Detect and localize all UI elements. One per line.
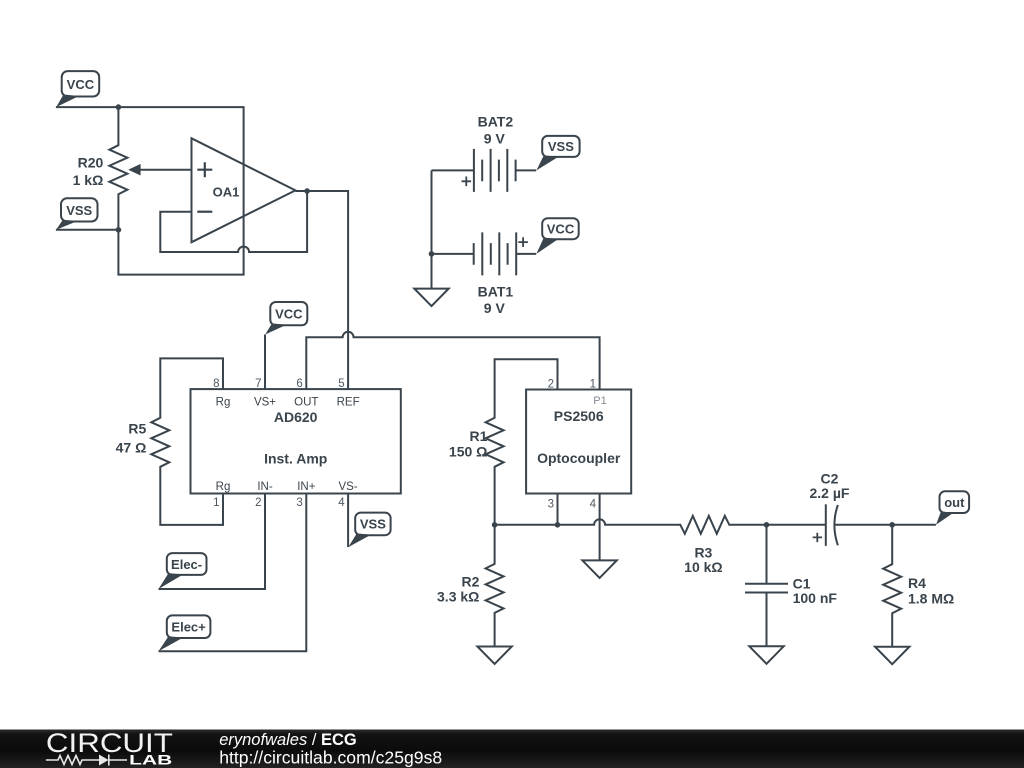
flag Elec+ bbox=[159, 615, 211, 651]
svg-text:9 V: 9 V bbox=[484, 300, 506, 316]
svg-text:R2: R2 bbox=[461, 573, 479, 589]
svg-text:Optocoupler: Optocoupler bbox=[537, 450, 621, 466]
node op-amp output bbox=[304, 188, 310, 194]
resistor R5 47 Ohm with loop pin8 to pin1 bbox=[116, 358, 223, 525]
svg-text:47 Ω: 47 Ω bbox=[116, 439, 147, 455]
svg-text:erynofwales / ECG: erynofwales / ECG bbox=[219, 731, 357, 749]
svg-text:9 V: 9 V bbox=[484, 130, 506, 146]
flag VSS at BAT2 bbox=[536, 136, 579, 171]
node R4 junction bbox=[889, 522, 895, 528]
svg-text:6: 6 bbox=[296, 378, 302, 390]
node VCC rail junction bbox=[116, 104, 122, 110]
node R1 bottom junction bbox=[492, 522, 498, 528]
svg-text:BAT2: BAT2 bbox=[478, 113, 514, 129]
svg-text:VS-: VS- bbox=[339, 481, 358, 493]
svg-text:PS2506: PS2506 bbox=[554, 408, 604, 424]
flag Elec- bbox=[159, 553, 207, 589]
svg-text:VCC: VCC bbox=[275, 306, 303, 321]
resistor R2 3.3 kOhm bbox=[437, 525, 504, 647]
svg-text:100 nF: 100 nF bbox=[793, 590, 838, 606]
node C1 junction bbox=[764, 522, 770, 528]
svg-text:Inst. Amp: Inst. Amp bbox=[264, 450, 327, 466]
flag VCC at pin 7 bbox=[265, 302, 307, 335]
svg-text:3: 3 bbox=[548, 499, 554, 511]
svg-text:4: 4 bbox=[338, 497, 345, 509]
svg-text:VCC: VCC bbox=[67, 77, 95, 92]
svg-text:1: 1 bbox=[590, 378, 596, 390]
flag out bbox=[936, 491, 969, 525]
wire AD620 OUT pin6 to PS2506 pin1 with hop bbox=[306, 332, 599, 390]
svg-text:AD620: AD620 bbox=[274, 409, 318, 425]
svg-text:Elec-: Elec- bbox=[171, 557, 202, 572]
svg-text:R1: R1 bbox=[469, 428, 487, 444]
node battery junction bbox=[429, 251, 435, 257]
svg-text:2: 2 bbox=[548, 378, 554, 390]
wire feedback from output to inverting input with hop bbox=[160, 191, 307, 252]
wire pin4 stub to ground bbox=[599, 494, 601, 561]
svg-text:BAT1: BAT1 bbox=[478, 284, 514, 300]
node pin3 junction bbox=[555, 522, 561, 528]
svg-text:C1: C1 bbox=[793, 575, 811, 591]
svg-text:VSS: VSS bbox=[548, 139, 574, 154]
svg-text:REF: REF bbox=[337, 397, 360, 409]
svg-text:out: out bbox=[944, 495, 965, 510]
svg-text:R4: R4 bbox=[908, 575, 926, 591]
wire pin4 VS- to VSS flag bbox=[347, 494, 349, 548]
svg-text:1: 1 bbox=[213, 497, 219, 509]
op-amp U2 AD620 Inst. Amp box bbox=[191, 378, 401, 509]
resistor R3 10 kOhm labels bbox=[684, 544, 722, 575]
wire bus right of C2 to out flag bbox=[835, 524, 936, 526]
flag VSS bbox=[56, 198, 97, 230]
op-amp OA1 bbox=[192, 138, 296, 242]
wire op-amp output to REF pin 5 bbox=[295, 191, 348, 389]
svg-text:5: 5 bbox=[338, 378, 344, 390]
flag VCC bbox=[56, 71, 99, 107]
svg-text:IN-: IN- bbox=[257, 481, 273, 493]
wire main bus with hop over pin4 and resistor R3 bbox=[495, 516, 826, 534]
svg-text:VS+: VS+ bbox=[254, 397, 276, 409]
battery BAT1 9 V bbox=[432, 232, 537, 316]
ground at C1 bbox=[749, 646, 783, 664]
svg-text:Rg: Rg bbox=[216, 397, 231, 409]
wire pin2 IN- to Elec- flag bbox=[159, 494, 266, 590]
svg-text:10 kΩ: 10 kΩ bbox=[684, 559, 722, 575]
wire battery common leg bbox=[431, 170, 433, 288]
svg-text:R5: R5 bbox=[128, 420, 146, 436]
node VSS junction bbox=[116, 227, 122, 233]
svg-text:Elec+: Elec+ bbox=[171, 620, 206, 635]
flag VCC at BAT1 bbox=[536, 218, 578, 254]
svg-text:http://circuitlab.com/c25g9s8: http://circuitlab.com/c25g9s8 bbox=[219, 747, 442, 767]
resistor R20 1 kOhm potentiometer bbox=[73, 107, 192, 230]
wire VCC top rail down to op-amp bottom and back to VSS node bbox=[56, 107, 244, 275]
wire pin3 IN+ to Elec+ flag bbox=[159, 494, 307, 652]
svg-text:R20: R20 bbox=[78, 154, 104, 170]
ground at pin4 bbox=[582, 560, 616, 578]
svg-text:7: 7 bbox=[255, 378, 261, 390]
capacitor C2 2.2 uF polarized bbox=[810, 470, 850, 546]
footer bar bbox=[0, 728, 1024, 768]
ground battery bbox=[414, 289, 448, 307]
svg-text:P1: P1 bbox=[593, 395, 606, 407]
resistor R4 1.8 MOhm bbox=[883, 525, 954, 647]
svg-text:C2: C2 bbox=[821, 470, 839, 486]
svg-text:3: 3 bbox=[296, 497, 302, 509]
svg-text:VSS: VSS bbox=[66, 203, 92, 218]
wire pin3 stub bbox=[557, 494, 559, 525]
svg-text:8: 8 bbox=[213, 378, 219, 390]
optocoupler P1 PS2506 box bbox=[526, 378, 631, 510]
wire VSS to R20 bottom node bbox=[56, 229, 119, 231]
wire pin7 VS+ to VCC flag bbox=[264, 335, 266, 390]
resistor R1 150 Ohm from pin2 bbox=[449, 359, 558, 525]
svg-text:2: 2 bbox=[255, 497, 261, 509]
svg-text:VCC: VCC bbox=[547, 222, 575, 237]
svg-text:VSS: VSS bbox=[360, 517, 386, 532]
ground at R4 bbox=[875, 647, 909, 665]
ground at R2 bbox=[477, 647, 511, 665]
svg-text:IN+: IN+ bbox=[297, 481, 316, 493]
capacitor C1 100 nF bbox=[745, 525, 837, 647]
svg-text:150 Ω: 150 Ω bbox=[449, 444, 487, 460]
svg-text:3.3 kΩ: 3.3 kΩ bbox=[437, 589, 479, 605]
svg-text:1.8 MΩ: 1.8 MΩ bbox=[908, 591, 954, 607]
svg-text:2.2 µF: 2.2 µF bbox=[810, 485, 850, 501]
svg-text:1 kΩ: 1 kΩ bbox=[73, 172, 104, 188]
svg-text:OA1: OA1 bbox=[213, 184, 240, 199]
battery BAT2 9 V bbox=[432, 113, 537, 191]
svg-text:OUT: OUT bbox=[294, 397, 318, 409]
flag VSS at pin 4 bbox=[348, 513, 390, 548]
svg-text:LAB: LAB bbox=[129, 752, 172, 768]
svg-text:Rg: Rg bbox=[216, 481, 231, 493]
svg-text:4: 4 bbox=[590, 499, 597, 511]
